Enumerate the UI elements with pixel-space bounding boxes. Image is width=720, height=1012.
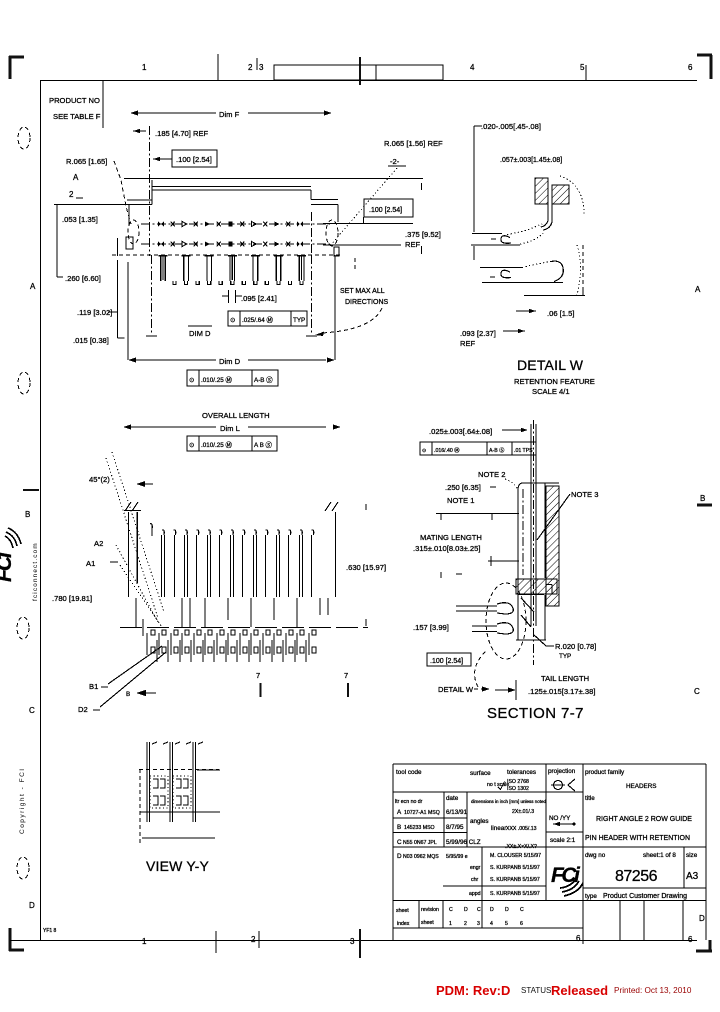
- svg-text:D: D: [29, 901, 35, 910]
- svg-text:appd: appd: [469, 891, 481, 897]
- svg-text:.100 [2.54]: .100 [2.54]: [369, 207, 402, 214]
- svg-text:2: 2: [464, 921, 467, 927]
- svg-text:2X±.01/.3: 2X±.01/.3: [512, 809, 534, 815]
- svg-text:.630 [15.97]: .630 [15.97]: [346, 563, 386, 572]
- svg-text:title: title: [585, 795, 595, 802]
- svg-text:NOTE 1: NOTE 1: [447, 496, 474, 505]
- svg-text:2: 2: [248, 63, 253, 72]
- svg-text:7: 7: [256, 671, 260, 680]
- svg-text:.016/.40 Ⓜ: .016/.40 Ⓜ: [434, 446, 459, 454]
- svg-text:5/99/96 CLZ: 5/99/96 CLZ: [446, 839, 481, 846]
- svg-text:SEE TABLE F: SEE TABLE F: [53, 112, 101, 121]
- svg-text:.780 [19.81]: .780 [19.81]: [52, 594, 92, 603]
- svg-text:REF: REF: [405, 240, 421, 249]
- svg-text:sheet: sheet: [421, 920, 434, 926]
- svg-text:.375 [9.52]: .375 [9.52]: [405, 230, 441, 239]
- svg-text:3: 3: [259, 63, 264, 72]
- svg-text:index: index: [397, 921, 410, 927]
- svg-text:dwg no: dwg no: [585, 852, 606, 859]
- svg-text:6: 6: [576, 934, 581, 943]
- svg-text:.260 [6.60]: .260 [6.60]: [65, 274, 101, 283]
- svg-text:.025±.003[.64±.08]: .025±.003[.64±.08]: [429, 427, 492, 436]
- svg-text:YF1 8: YF1 8: [43, 928, 57, 934]
- svg-text:tool code: tool code: [396, 769, 422, 776]
- svg-text:B: B: [397, 824, 401, 831]
- svg-text:.315±.010[8.03±.25]: .315±.010[8.03±.25]: [413, 544, 480, 553]
- svg-text:.015 [0.38]: .015 [0.38]: [73, 336, 109, 345]
- svg-text:fciconnect.com: fciconnect.com: [32, 542, 39, 601]
- svg-text:R.065 [1.65]: R.065 [1.65]: [66, 157, 107, 166]
- svg-text:REF: REF: [460, 339, 476, 348]
- svg-text:1: 1: [142, 63, 147, 72]
- svg-text:D: D: [464, 907, 468, 913]
- svg-text:C: C: [397, 839, 402, 846]
- svg-text:.157 [3.99]: .157 [3.99]: [413, 623, 449, 632]
- svg-text:3: 3: [477, 921, 480, 927]
- svg-text:engr: engr: [470, 865, 481, 871]
- svg-text:⊙: ⊙: [189, 442, 194, 449]
- svg-text:.185 [4.70] REF: .185 [4.70] REF: [155, 129, 209, 138]
- svg-text:5: 5: [580, 63, 585, 72]
- svg-text:.010/.25 Ⓜ: .010/.25 Ⓜ: [201, 376, 233, 384]
- svg-text:R.065 [1.56] REF: R.065 [1.56] REF: [384, 139, 443, 148]
- svg-text:6: 6: [688, 935, 693, 944]
- svg-text:.XX±.X×X/.X?: .XX±.X×X/.X?: [505, 844, 537, 850]
- svg-text:size: size: [686, 852, 698, 859]
- svg-text:7: 7: [344, 671, 348, 680]
- svg-text:.095 [2.41]: .095 [2.41]: [241, 294, 277, 303]
- svg-text:ISO 1302: ISO 1302: [507, 786, 529, 792]
- svg-text:DETAIL W: DETAIL W: [438, 685, 474, 694]
- svg-text:.100 [2.54]: .100 [2.54]: [176, 155, 212, 164]
- svg-text:dimensions in inch [mm] unless: dimensions in inch [mm] unless noted: [471, 799, 547, 804]
- svg-text:scale 2:1: scale 2:1: [550, 837, 576, 844]
- svg-text:.053 [1.35]: .053 [1.35]: [62, 215, 98, 224]
- svg-text:6: 6: [520, 921, 523, 927]
- svg-text:M. CLOUSER 5/15/97: M. CLOUSER 5/15/97: [490, 853, 541, 859]
- svg-text:Product Customer Drawing: Product Customer Drawing: [603, 893, 687, 900]
- svg-text:45°(2): 45°(2): [89, 475, 110, 484]
- svg-text:ltr ecn no dr: ltr ecn no dr: [395, 799, 423, 805]
- svg-text:1: 1: [142, 937, 147, 946]
- svg-text:⊙: ⊙: [230, 317, 235, 324]
- svg-text:A: A: [73, 173, 79, 182]
- svg-text:Released: Released: [551, 983, 608, 998]
- svg-text:A3: A3: [686, 871, 699, 882]
- svg-text:N03 0962 MQS: N03 0962 MQS: [403, 854, 439, 860]
- svg-text:DIRECTIONS: DIRECTIONS: [345, 299, 389, 306]
- svg-text:2: 2: [69, 190, 74, 199]
- svg-text:4: 4: [470, 63, 475, 72]
- svg-text:R.020 [0.78]: R.020 [0.78]: [555, 642, 596, 651]
- svg-text:RIGHT ANGLE 2 ROW GUIDE: RIGHT ANGLE 2 ROW GUIDE: [596, 816, 692, 823]
- svg-text:SET MAX ALL: SET MAX ALL: [340, 288, 385, 295]
- svg-text:.100 [2.54]: .100 [2.54]: [430, 658, 463, 665]
- svg-text:D: D: [699, 914, 705, 923]
- svg-text:5/95/99 e: 5/95/99 e: [446, 854, 468, 860]
- svg-text:PDM: Rev:D: PDM: Rev:D: [436, 983, 510, 998]
- svg-text:A-B Ⓢ: A-B Ⓢ: [254, 376, 273, 384]
- svg-text:SCALE 4/1: SCALE 4/1: [532, 387, 570, 396]
- svg-text:projection: projection: [548, 768, 576, 775]
- svg-text:DETAIL W: DETAIL W: [517, 357, 584, 373]
- svg-text:SECTION 7-7: SECTION 7-7: [487, 705, 584, 722]
- svg-text:3: 3: [350, 937, 355, 946]
- svg-text:PRODUCT NO: PRODUCT NO: [49, 96, 100, 105]
- svg-text:A B Ⓢ: A B Ⓢ: [254, 441, 273, 449]
- svg-text:.119 [3.02]: .119 [3.02]: [77, 308, 112, 317]
- svg-text:D: D: [505, 907, 509, 913]
- svg-text:Dim D: Dim D: [219, 357, 241, 366]
- svg-text:B: B: [126, 691, 130, 698]
- svg-text:NOTE 3: NOTE 3: [571, 490, 598, 499]
- svg-text:A1: A1: [86, 559, 95, 568]
- svg-text:Dim F: Dim F: [219, 110, 240, 119]
- svg-text:TAIL LENGTH: TAIL LENGTH: [541, 674, 589, 683]
- svg-text:.057±.003[1.45±.08]: .057±.003[1.45±.08]: [500, 157, 562, 164]
- svg-text:product family: product family: [585, 769, 625, 776]
- svg-text:tolerances: tolerances: [507, 769, 536, 776]
- svg-text:A2: A2: [94, 539, 103, 548]
- svg-text:B1: B1: [89, 682, 98, 691]
- svg-text:5: 5: [505, 921, 508, 927]
- svg-text:A-B Ⓢ: A-B Ⓢ: [489, 446, 504, 454]
- svg-text:.01 TPS: .01 TPS: [514, 448, 533, 454]
- svg-text:OVERALL LENGTH: OVERALL LENGTH: [202, 411, 270, 420]
- svg-text:FCi: FCi: [0, 551, 16, 582]
- svg-text:87256: 87256: [615, 868, 658, 885]
- svg-text:6: 6: [688, 63, 693, 72]
- svg-text:DIM D: DIM D: [189, 329, 211, 338]
- svg-text:ISO 2768: ISO 2768: [507, 779, 529, 785]
- svg-text:surface: surface: [470, 770, 491, 777]
- svg-text:.06 [1.5]: .06 [1.5]: [547, 309, 574, 318]
- svg-text:chr: chr: [471, 877, 478, 883]
- svg-text:10727-A1 MSQ: 10727-A1 MSQ: [404, 810, 440, 816]
- svg-text:D2: D2: [78, 705, 88, 714]
- svg-text:⊙: ⊙: [189, 377, 194, 384]
- svg-text:MATING LENGTH: MATING LENGTH: [420, 533, 482, 542]
- svg-text:.010/.25 Ⓜ: .010/.25 Ⓜ: [201, 441, 233, 449]
- svg-text:Copyright - FCI: Copyright - FCI: [19, 767, 26, 834]
- svg-text:angles: angles: [470, 818, 489, 825]
- svg-text:-2-: -2-: [390, 157, 400, 166]
- svg-text:TYP: TYP: [293, 317, 305, 324]
- svg-text:S. KURPANB 5/15/97: S. KURPANB 5/15/97: [490, 891, 540, 897]
- svg-text:type: type: [585, 893, 597, 900]
- svg-text:sheet: sheet: [396, 908, 409, 914]
- svg-text:A: A: [695, 285, 701, 294]
- svg-text:C: C: [694, 687, 700, 696]
- svg-text:.125±.015[3.17±.38]: .125±.015[3.17±.38]: [528, 687, 595, 696]
- svg-text:S. KURPANB 5/15/97: S. KURPANB 5/15/97: [490, 865, 540, 871]
- svg-text:TYP: TYP: [559, 653, 571, 660]
- svg-text:B: B: [700, 494, 705, 503]
- svg-text:B: B: [25, 510, 30, 519]
- svg-text:HEADERS: HEADERS: [626, 783, 656, 790]
- svg-text:C: C: [520, 907, 524, 913]
- svg-text:XXX .005/.13: XXX .005/.13: [506, 826, 537, 832]
- svg-text:NO /YY: NO /YY: [549, 815, 571, 822]
- svg-text:N55 0N67 JPL: N55 0N67 JPL: [403, 840, 437, 846]
- svg-text:VIEW Y-Y: VIEW Y-Y: [146, 858, 210, 874]
- svg-text:D: D: [397, 853, 402, 860]
- svg-text:145233 MSO: 145233 MSO: [404, 825, 435, 831]
- svg-text:1: 1: [449, 921, 452, 927]
- svg-text:C: C: [29, 706, 35, 715]
- svg-text:S. KURPANB 5/15/97: S. KURPANB 5/15/97: [490, 877, 540, 883]
- svg-text:STATUS:: STATUS:: [521, 986, 554, 995]
- svg-text:.025/.64 Ⓜ: .025/.64 Ⓜ: [242, 316, 274, 324]
- svg-text:2: 2: [251, 935, 256, 944]
- svg-text:sheet:1 of 8: sheet:1 of 8: [643, 852, 676, 859]
- svg-text:date: date: [446, 795, 459, 802]
- svg-text:4: 4: [490, 921, 493, 927]
- svg-text:⊙: ⊙: [422, 448, 426, 454]
- svg-text:Dim L: Dim L: [220, 424, 240, 433]
- svg-text:linear: linear: [491, 825, 506, 832]
- svg-text:PIN HEADER WITH RETENTION: PIN HEADER WITH RETENTION: [585, 835, 690, 842]
- svg-text:C: C: [449, 907, 453, 913]
- svg-text:A: A: [30, 282, 36, 291]
- svg-text:.250 [6.35]: .250 [6.35]: [445, 483, 481, 492]
- svg-text:C: C: [477, 907, 481, 913]
- svg-text:D: D: [490, 907, 494, 913]
- svg-text:Printed: Oct 13, 2010: Printed: Oct 13, 2010: [614, 986, 692, 995]
- svg-text:.020-.005[.45-.08]: .020-.005[.45-.08]: [481, 122, 541, 131]
- svg-text:.093 [2.37]: .093 [2.37]: [460, 329, 496, 338]
- svg-text:6/13/91: 6/13/91: [446, 809, 468, 816]
- svg-text:8/7/95: 8/7/95: [446, 824, 464, 831]
- svg-text:RETENTION FEATURE: RETENTION FEATURE: [514, 377, 595, 386]
- svg-text:NOTE 2: NOTE 2: [478, 470, 505, 479]
- svg-text:revision: revision: [421, 907, 439, 913]
